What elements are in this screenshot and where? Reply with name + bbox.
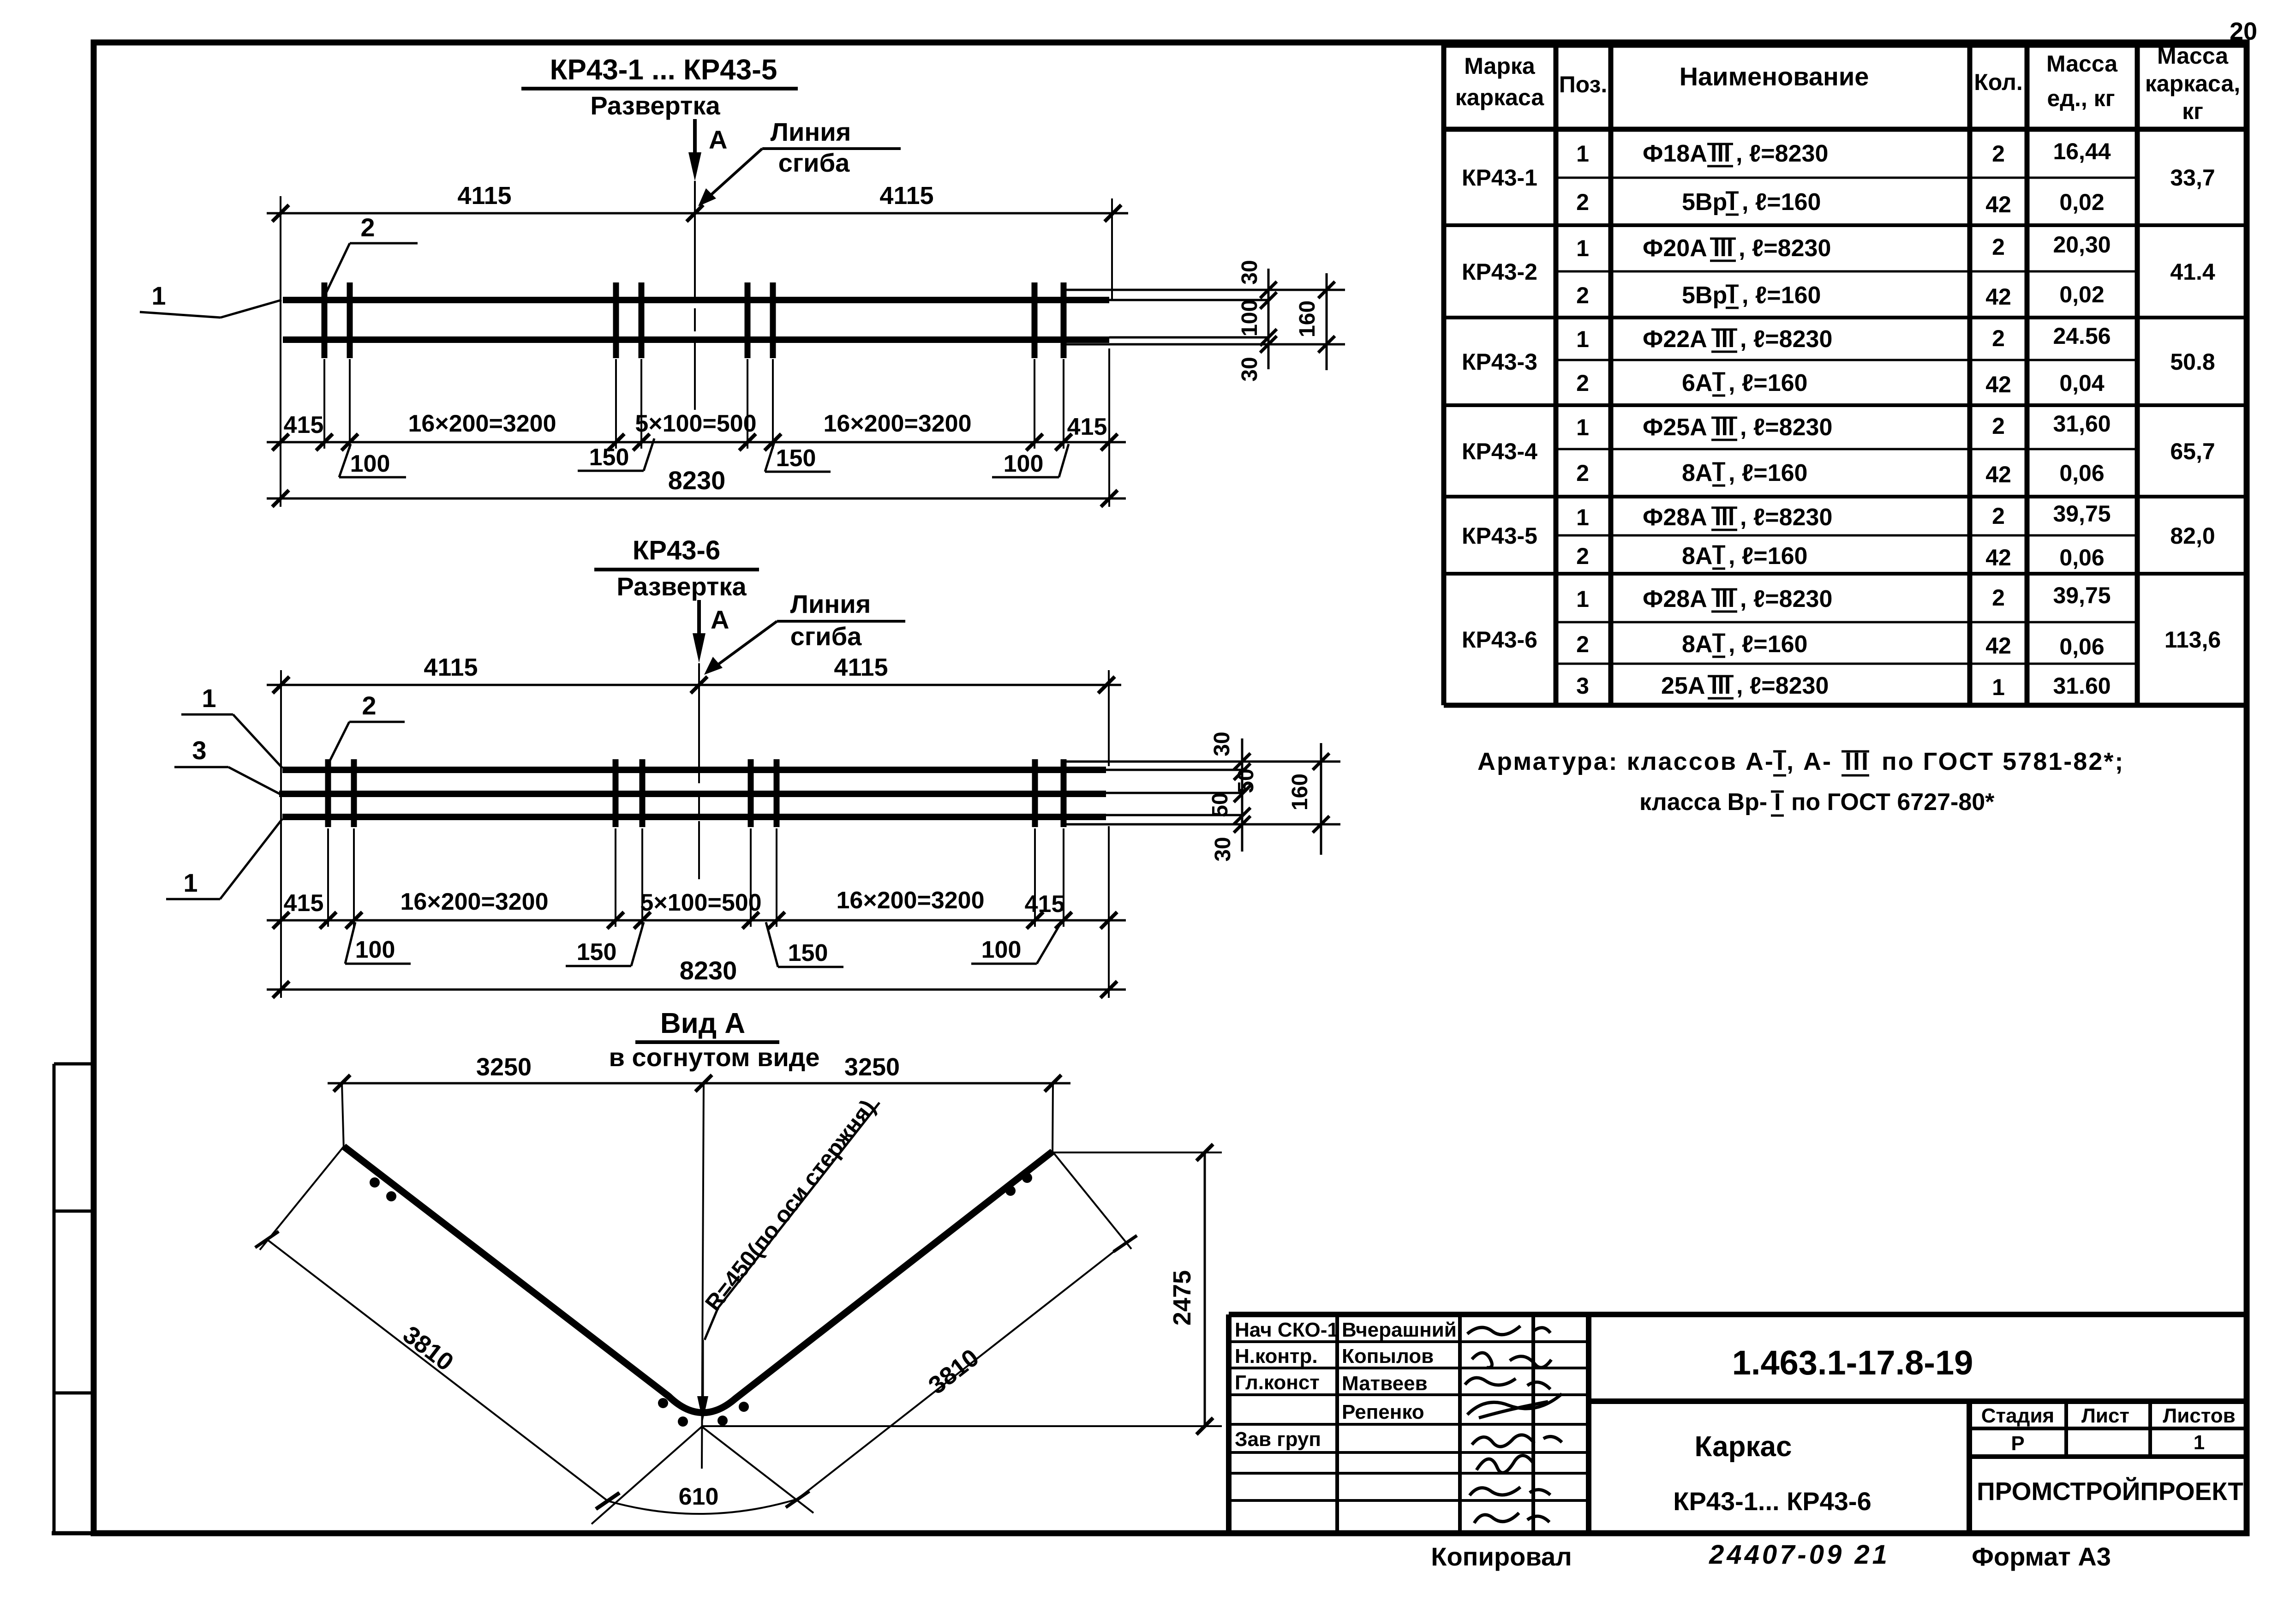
svg-text:1: 1 — [1576, 414, 1589, 440]
svg-text:КР43-1 ... КР43-5: КР43-1 ... КР43-5 — [550, 54, 777, 86]
view 2 bar pos.1 bottom — [282, 814, 1106, 820]
svg-text:2: 2 — [1576, 543, 1589, 569]
svg-text:2: 2 — [1576, 631, 1589, 657]
view 2 leader label 100 right — [971, 922, 1061, 964]
svg-text:160: 160 — [1288, 774, 1312, 810]
view 1 leader 2 (stirrups) — [326, 213, 418, 294]
svg-text:150: 150 — [788, 940, 828, 966]
svg-text:КР43-2: КР43-2 — [1462, 259, 1537, 285]
svg-text:Линия: Линия — [771, 117, 851, 146]
view 2 leader 1 top bar — [181, 684, 282, 768]
table group mass values — [2164, 165, 2221, 653]
title block left labels — [1235, 1319, 1339, 1451]
view 2 overlap box outline — [1063, 762, 1242, 824]
view 2 bar pos.3 middle — [279, 791, 1106, 797]
svg-text:30: 30 — [1210, 732, 1234, 756]
svg-text:, ℓ=8230: , ℓ=8230 — [1740, 504, 1832, 531]
view 2 bottom dimension row spacings — [267, 887, 1126, 929]
view 2 extension lines — [281, 670, 1109, 998]
svg-text:Листов: Листов — [2163, 1404, 2235, 1427]
specification table grid — [1444, 44, 2248, 705]
svg-text:0,06: 0,06 — [2059, 545, 2104, 570]
view 2 leader 2 stirrups — [329, 691, 405, 762]
svg-text:415: 415 — [1067, 414, 1107, 440]
svg-text:Масса: Масса — [2157, 43, 2229, 69]
svg-text:, ℓ=160: , ℓ=160 — [1728, 543, 1807, 570]
svg-text:0,02: 0,02 — [2059, 189, 2104, 215]
svg-text:2: 2 — [1576, 282, 1589, 308]
svg-text:, ℓ=8230: , ℓ=8230 — [1736, 672, 1829, 699]
view A right 3810 dimension — [786, 1152, 1137, 1507]
svg-text:8230: 8230 — [668, 466, 726, 495]
view 2 leader 1 bottom bar — [166, 819, 282, 899]
title block stage/sheet header — [1981, 1404, 2236, 1455]
svg-text:, ℓ=160: , ℓ=160 — [1742, 189, 1821, 216]
svg-text:Линия: Линия — [790, 589, 871, 618]
left fold-mark boxes — [52, 1064, 95, 1533]
view 2 fold line label — [704, 589, 905, 675]
svg-text:1: 1 — [1576, 141, 1589, 167]
svg-text:1: 1 — [1576, 586, 1589, 612]
svg-text:Р: Р — [2011, 1432, 2024, 1455]
title block outline — [1229, 1314, 2248, 1533]
svg-text:1: 1 — [202, 684, 216, 713]
svg-text:Ф25А: Ф25А — [1643, 414, 1707, 441]
svg-text:100: 100 — [981, 936, 1022, 963]
svg-text:3250: 3250 — [844, 1053, 900, 1081]
svg-text:I: I — [1774, 789, 1781, 816]
svg-text:класса Вр-: класса Вр- — [1639, 789, 1767, 816]
svg-text:0,06: 0,06 — [2059, 460, 2104, 486]
view 2 top dimension 4115+4115 — [267, 654, 1121, 693]
view 1 top dimension 4115+4115 — [267, 182, 1128, 222]
view 1 bottom dimension row spacings — [267, 410, 1126, 450]
table header texts — [1455, 43, 2240, 124]
svg-text:39,75: 39,75 — [2053, 582, 2111, 608]
svg-text:, ℓ=8230: , ℓ=8230 — [1736, 140, 1828, 167]
svg-text:А: А — [709, 125, 727, 154]
title block names — [1342, 1319, 1457, 1423]
svg-text:Каркас: Каркас — [1695, 1431, 1792, 1463]
svg-text:82,0: 82,0 — [2170, 523, 2215, 549]
svg-text:Ф18А: Ф18А — [1643, 140, 1707, 167]
svg-text:1: 1 — [1992, 674, 2005, 700]
svg-text:, ℓ=160: , ℓ=160 — [1728, 631, 1807, 658]
svg-text:8А: 8А — [1682, 460, 1712, 486]
svg-text:Марка: Марка — [1464, 53, 1536, 79]
svg-text:, ℓ=160: , ℓ=160 — [1728, 460, 1807, 486]
svg-text:3250: 3250 — [476, 1053, 532, 1081]
svg-text:по ГОСТ 5781-82*;: по ГОСТ 5781-82*; — [1882, 748, 2124, 775]
svg-text:25А: 25А — [1661, 672, 1705, 699]
svg-text:Ф22А: Ф22А — [1643, 326, 1707, 353]
view A top dimension 3250+3250 — [328, 1053, 1070, 1092]
svg-text:24.56: 24.56 — [2053, 323, 2111, 349]
svg-text:150: 150 — [589, 444, 629, 471]
svg-text:150: 150 — [776, 445, 816, 472]
view A right height dimension 2475 — [702, 1144, 1222, 1434]
svg-text:Развертка: Развертка — [590, 91, 720, 120]
svg-text:24407-09 21: 24407-09 21 — [1709, 1540, 1890, 1570]
svg-text:Зав груп: Зав груп — [1235, 1428, 1321, 1451]
svg-text:2: 2 — [1576, 189, 1589, 215]
svg-text:, ℓ=160: , ℓ=160 — [1728, 370, 1807, 396]
svg-text:4115: 4115 — [457, 182, 511, 210]
view 1 leader label 150 left — [578, 438, 654, 471]
view 2 leader label 150 left — [566, 922, 644, 966]
view A title — [609, 1008, 820, 1072]
title block name KARKAS — [1673, 1431, 1871, 1516]
svg-text:Арматура: классов А-: Арматура: классов А- — [1477, 748, 1775, 775]
svg-text:в согнутом виде: в согнутом виде — [609, 1043, 820, 1072]
svg-text:1: 1 — [2194, 1431, 2205, 1454]
view 1 longitudinal bar pos.1 top — [283, 297, 1109, 303]
svg-text:Кол.: Кол. — [1974, 69, 2022, 95]
svg-text:16,44: 16,44 — [2053, 138, 2111, 164]
svg-text:1: 1 — [151, 281, 166, 310]
title block signatures — [1465, 1326, 1562, 1523]
view 1 longitudinal bar pos.1 bottom — [283, 336, 1109, 343]
svg-text:по ГОСТ 6727-80*: по ГОСТ 6727-80* — [1791, 789, 1995, 816]
svg-text:Наименование: Наименование — [1680, 62, 1869, 91]
table mark column values — [1462, 165, 1537, 653]
svg-text:31.60: 31.60 — [2053, 673, 2111, 699]
svg-text:65,7: 65,7 — [2170, 438, 2215, 464]
svg-text:100: 100 — [1238, 300, 1262, 336]
svg-text:Лист: Лист — [2081, 1404, 2129, 1427]
view 1 title KP43-1...KP43-5 — [521, 54, 798, 120]
svg-text:5×100=500: 5×100=500 — [640, 889, 761, 916]
svg-text:8230: 8230 — [680, 956, 737, 985]
svg-text:1.463.1-17.8-19: 1.463.1-17.8-19 — [1732, 1344, 1973, 1382]
view 2 fold arrow A — [693, 600, 729, 663]
view 2 right end vertical dimension 30/50/50/30 — [1208, 732, 1258, 861]
svg-text:2: 2 — [1992, 234, 2005, 260]
svg-text:кг: кг — [2182, 98, 2203, 124]
svg-text:42: 42 — [1985, 633, 2011, 659]
svg-text:2: 2 — [360, 213, 375, 242]
view 2 leader label 100 left — [345, 922, 411, 964]
svg-text:4115: 4115 — [879, 182, 933, 210]
svg-text:6А: 6А — [1682, 370, 1712, 396]
svg-text:20: 20 — [2230, 18, 2257, 45]
svg-text:16×200=3200: 16×200=3200 — [408, 410, 556, 437]
view 1 right end overall dimension 160 — [1268, 273, 1345, 370]
view 1 extension lines — [281, 196, 1112, 507]
svg-text:Формат А3: Формат А3 — [1972, 1542, 2111, 1571]
svg-text:41.4: 41.4 — [2170, 259, 2215, 285]
svg-text:, ℓ=8230: , ℓ=8230 — [1740, 586, 1832, 612]
svg-text:113,6: 113,6 — [2164, 627, 2221, 653]
svg-text:8А: 8А — [1682, 631, 1712, 658]
view 1 overlap box outline — [1062, 290, 1268, 344]
svg-text:3: 3 — [1576, 673, 1589, 699]
svg-text:42: 42 — [1985, 462, 2011, 487]
svg-text:16×200=3200: 16×200=3200 — [836, 887, 984, 914]
svg-text:2: 2 — [1992, 141, 2005, 167]
svg-text:каркаса,: каркаса, — [2145, 71, 2240, 96]
svg-text:1: 1 — [183, 868, 197, 897]
svg-text:, ℓ=8230: , ℓ=8230 — [1740, 414, 1832, 441]
svg-text:, ℓ=160: , ℓ=160 — [1742, 282, 1821, 309]
svg-text:50: 50 — [1208, 792, 1232, 817]
view 2 right end overall dimension 160 — [1242, 743, 1340, 855]
svg-text:42: 42 — [1985, 545, 2011, 570]
svg-text:, А-: , А- — [1787, 748, 1832, 775]
svg-text:Копылов: Копылов — [1342, 1345, 1434, 1368]
svg-text:2: 2 — [362, 691, 376, 720]
svg-text:КР43-1... КР43-6: КР43-1... КР43-6 — [1673, 1487, 1871, 1516]
svg-text:100: 100 — [355, 936, 395, 963]
svg-text:Нач СКО-1: Нач СКО-1 — [1235, 1319, 1339, 1341]
svg-text:16×200=3200: 16×200=3200 — [823, 410, 971, 437]
svg-text:5Вр: 5Вр — [1682, 282, 1727, 309]
svg-text:610: 610 — [679, 1483, 719, 1510]
view 1 fold arrow A — [688, 119, 727, 181]
svg-text:каркаса: каркаса — [1455, 84, 1545, 110]
view 1 stirrups pos.2 — [324, 282, 1064, 358]
svg-text:КР43-6: КР43-6 — [633, 535, 720, 565]
svg-text:0,02: 0,02 — [2059, 282, 2104, 307]
view 1 leader label 100 left — [339, 444, 406, 477]
view 2 center fold line — [698, 663, 700, 879]
svg-text:50.8: 50.8 — [2170, 349, 2215, 375]
view 1 leader label 150 right — [765, 439, 831, 472]
view A bottom 610 arc dimension — [592, 1427, 813, 1524]
svg-text:КР43-6: КР43-6 — [1462, 627, 1537, 653]
svg-text:, ℓ=8230: , ℓ=8230 — [1740, 326, 1832, 353]
table pos/qty/mass values — [1576, 138, 2111, 700]
svg-text:Репенко: Репенко — [1342, 1401, 1424, 1423]
svg-text:42: 42 — [1985, 372, 2011, 397]
svg-text:415: 415 — [284, 890, 324, 917]
svg-text:5×100=500: 5×100=500 — [635, 410, 756, 437]
view 2 leader 3 middle bar — [174, 736, 280, 794]
svg-text:2: 2 — [1576, 370, 1589, 396]
svg-text:16×200=3200: 16×200=3200 — [400, 888, 548, 915]
svg-text:20,30: 20,30 — [2053, 232, 2111, 258]
svg-text:50: 50 — [1234, 768, 1258, 793]
svg-text:100: 100 — [350, 450, 390, 477]
view A wire dots on bars — [370, 1173, 1032, 1427]
svg-text:415: 415 — [1025, 891, 1065, 918]
svg-text:160: 160 — [1295, 300, 1320, 337]
view 1 bar thin continuations — [1109, 300, 1268, 337]
svg-text:1: 1 — [1576, 326, 1589, 352]
view 2 bar pos.1 top — [282, 767, 1106, 773]
svg-text:Гл.конст: Гл.конст — [1235, 1371, 1320, 1394]
svg-text:, ℓ=8230: , ℓ=8230 — [1739, 235, 1831, 262]
view 2 title KP43-6 — [594, 535, 759, 601]
svg-text:42: 42 — [1985, 192, 2011, 217]
view 2 bar thin continuations — [1106, 770, 1242, 815]
svg-text:Стадия: Стадия — [1981, 1404, 2054, 1427]
svg-text:Масса: Масса — [2046, 51, 2118, 77]
svg-text:КР43-3: КР43-3 — [1462, 349, 1537, 375]
svg-text:8А: 8А — [1682, 543, 1712, 570]
svg-text:Матвеев: Матвеев — [1342, 1372, 1428, 1395]
svg-text:33,7: 33,7 — [2170, 165, 2215, 191]
svg-text:1: 1 — [1576, 504, 1589, 530]
view 1 center fold line — [694, 181, 696, 410]
svg-text:2: 2 — [1992, 413, 2005, 439]
svg-text:ПРОМСТРОЙПРОЕКТ: ПРОМСТРОЙПРОЕКТ — [1977, 1476, 2243, 1506]
svg-text:КР43-5: КР43-5 — [1462, 523, 1537, 549]
roman numeral class marks (over/underlines) — [1707, 144, 1739, 698]
table name column values — [1643, 140, 1832, 699]
view 2 leader label 150 right — [766, 922, 843, 967]
svg-text:2: 2 — [1992, 585, 2005, 611]
svg-text:0,04: 0,04 — [2059, 370, 2105, 396]
view A left 3810 dimension — [255, 1146, 619, 1509]
svg-text:100: 100 — [1004, 450, 1044, 477]
svg-text:сгиба: сгиба — [778, 148, 850, 177]
view 1 leader 1 (bar) — [140, 281, 281, 318]
svg-text:Ф28А: Ф28А — [1643, 586, 1707, 612]
view A extension lines from top dim — [342, 1083, 1053, 1469]
svg-text:5Вр: 5Вр — [1682, 189, 1727, 216]
svg-text:4115: 4115 — [834, 654, 888, 681]
svg-text:150: 150 — [577, 939, 617, 966]
svg-text:Поз.: Поз. — [1559, 72, 1608, 97]
svg-text:30: 30 — [1238, 357, 1262, 381]
svg-text:2475: 2475 — [1168, 1270, 1196, 1326]
svg-text:4115: 4115 — [424, 654, 478, 681]
svg-text:Ф28А: Ф28А — [1643, 504, 1707, 531]
svg-text:Ф20А: Ф20А — [1643, 235, 1707, 262]
svg-text:Н.контр.: Н.контр. — [1235, 1345, 1318, 1368]
view 1 overall dimension 8230 — [267, 466, 1126, 507]
view 2 stirrups pos.2 — [328, 759, 1064, 827]
svg-text:31,60: 31,60 — [2053, 411, 2111, 437]
svg-text:ед., кг: ед., кг — [2047, 85, 2115, 111]
svg-text:Вчерашний: Вчерашний — [1342, 1319, 1457, 1341]
svg-text:Развертка: Развертка — [616, 572, 747, 601]
svg-text:КР43-4: КР43-4 — [1462, 438, 1537, 464]
svg-text:Копировал: Копировал — [1431, 1542, 1572, 1571]
view 1 fold line label — [698, 117, 901, 206]
svg-text:сгиба: сгиба — [790, 622, 862, 651]
svg-text:415: 415 — [284, 412, 324, 438]
svg-text:3: 3 — [192, 736, 206, 765]
svg-text:30: 30 — [1238, 260, 1262, 284]
svg-text:А: А — [711, 605, 729, 634]
svg-text:Вид А: Вид А — [660, 1008, 745, 1039]
svg-text:39,75: 39,75 — [2053, 501, 2111, 527]
view 1 right end vertical dimension 30/100/30 — [1238, 260, 1277, 381]
svg-text:2: 2 — [1576, 460, 1589, 486]
svg-text:0,06: 0,06 — [2059, 634, 2104, 660]
svg-text:30: 30 — [1211, 837, 1235, 861]
view 1 leader label 100 right — [992, 444, 1069, 477]
svg-text:2: 2 — [1992, 503, 2005, 529]
svg-text:42: 42 — [1985, 284, 2011, 310]
view A bent bar — [344, 1146, 1052, 1413]
reinforcement classes note — [1477, 748, 2124, 816]
svg-text:1: 1 — [1576, 235, 1589, 261]
svg-text:КР43-1: КР43-1 — [1462, 165, 1537, 191]
view A radius leader R=450 — [697, 1095, 880, 1422]
view 2 overall dimension 8230 — [267, 956, 1126, 998]
svg-text:2: 2 — [1992, 325, 2005, 351]
